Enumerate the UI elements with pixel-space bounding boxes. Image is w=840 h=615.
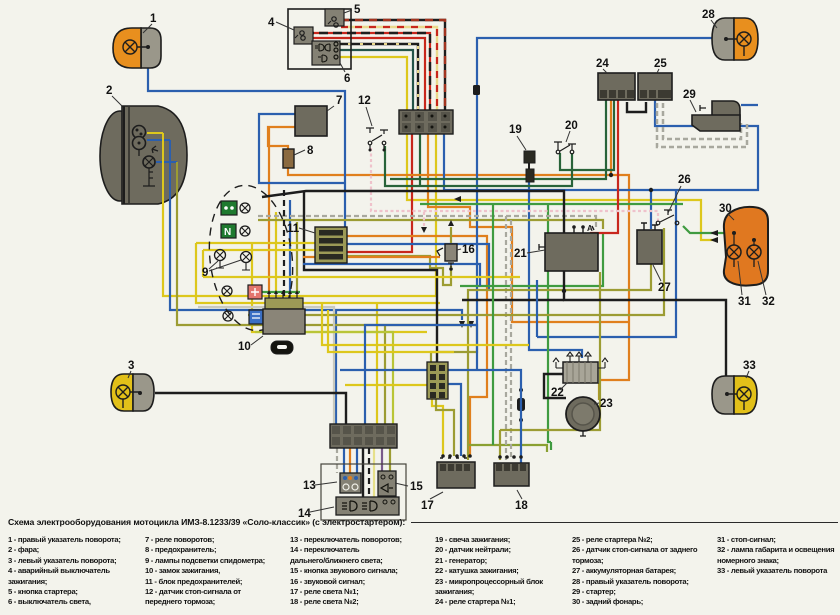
wire blue relay7 left <box>259 114 344 183</box>
wire top bundle 7 yellow <box>336 57 407 111</box>
indicator block turn green <box>221 201 250 215</box>
headlamp internal blue wire <box>147 140 177 162</box>
svg-text:33: 33 <box>743 360 756 372</box>
wire darkgreen relay24 to neutral switch <box>560 100 614 170</box>
wire top bundle 2 yellow base <box>341 27 437 111</box>
wire blue spark plug to coil <box>529 182 582 358</box>
legend column 4 <box>435 535 543 608</box>
wire black y300 left part <box>462 299 564 301</box>
wire green x548 down to y447 <box>548 205 551 450</box>
wire yellow branch to handlebar connector <box>376 303 378 424</box>
wire black handlebar to dimmer sw14 <box>362 448 364 500</box>
inline connector pin on blue x477 <box>473 85 480 95</box>
svg-text:4: 4 <box>268 17 275 29</box>
legend column 5 <box>572 535 697 608</box>
wire yellow harness y352 <box>328 310 454 352</box>
wire top bundle 2 red dashes <box>341 27 437 111</box>
wire olive headlamp y325 to relay17 <box>177 162 477 362</box>
fuse block 11 <box>315 227 347 263</box>
svg-text:20: 20 <box>565 120 578 132</box>
wire top bundle 1 red dashes <box>341 20 445 111</box>
wire yellow mesh y277 <box>203 276 520 278</box>
svg-text:10: 10 <box>238 341 251 353</box>
svg-text:19: 19 <box>509 124 522 136</box>
ignition lock 10 <box>263 290 305 354</box>
rear brake stop sensor 26 <box>656 210 679 225</box>
legend column 6 <box>717 535 834 577</box>
wire blue lock row y264 <box>303 264 480 286</box>
wire black jumper relay24-25 <box>627 102 646 112</box>
svg-text:N: N <box>224 227 231 238</box>
wire darkgreen relay24 y178 <box>390 100 606 179</box>
legend rule <box>411 522 838 523</box>
blue terminal arrows <box>459 321 474 328</box>
wire blue starter stub <box>741 104 758 106</box>
front brake stop sensor 12 <box>366 128 388 152</box>
ignition module 23 <box>566 397 600 436</box>
tail lamp 30 <box>710 207 768 286</box>
lamp 28 right rear turn indicator <box>712 18 758 60</box>
svg-text:32: 32 <box>762 296 775 308</box>
harness connector block top <box>399 110 453 134</box>
wire graybraid drop x506 <box>505 216 507 460</box>
svg-text:2: 2 <box>106 85 112 97</box>
dimmer switch 14 <box>336 497 399 515</box>
wire pink branch arrow <box>423 212 425 226</box>
spark plug 19 <box>524 151 535 182</box>
svg-text:17: 17 <box>421 500 434 512</box>
svg-text:21: 21 <box>514 248 527 260</box>
wire yellow headlamp y303 to relay17 <box>196 243 440 303</box>
wire olive fuseblock y256 <box>346 256 451 285</box>
light relay 17 <box>437 458 475 488</box>
wire orange below connector to sw13 <box>349 448 351 476</box>
headlamp bulb symbol high/low <box>133 126 146 139</box>
wire olive battery right y315 <box>248 228 664 315</box>
turn switch 13 <box>340 473 361 493</box>
wire top bundle 3 red base <box>305 33 430 111</box>
svg-text:31: 31 <box>738 296 751 308</box>
wire top bundle 5 yellow dashes <box>336 44 418 111</box>
legend column 1 <box>8 535 121 608</box>
starter relay 24 <box>598 73 635 100</box>
wire yellow headlamp to lock area <box>252 243 427 332</box>
switch box enclosure 13-15 <box>321 464 406 520</box>
wire graybraid starter loop outer <box>657 103 747 147</box>
wire olive relay18 x500 <box>499 430 501 460</box>
wire blue relay17 pin from block <box>448 384 461 456</box>
svg-text:9: 9 <box>202 267 208 279</box>
wire green switch26 to tail lamp <box>683 226 724 233</box>
indicator block oil pink <box>222 285 262 299</box>
wire green y447 over relays <box>467 445 547 452</box>
wire purple below connector to sw15 <box>381 448 383 477</box>
svg-text:3: 3 <box>128 360 134 372</box>
wire yellow harness y345 <box>322 303 529 345</box>
wire yellow cluster bus y250 <box>203 250 336 277</box>
svg-text:1: 1 <box>150 13 157 25</box>
wire yellow cluster bus y243 <box>196 242 330 244</box>
svg-text:28: 28 <box>702 9 715 21</box>
wire olive branch handlebar x385 <box>384 325 386 424</box>
starter relay 25 <box>638 73 672 100</box>
wire red relay24 to generator <box>590 100 618 233</box>
wire olive instrument y220 <box>258 220 603 229</box>
wire yellow harness x407 to tail lamp <box>407 133 714 240</box>
wire olive horn top stub <box>450 227 452 243</box>
starter button 5 <box>325 9 344 27</box>
instrument cluster 9 dashed outline <box>201 181 300 336</box>
svg-text:8: 8 <box>307 145 314 157</box>
lamp 33 left rear turn indicator <box>712 376 757 414</box>
headlamp internal yellow wire <box>147 132 163 134</box>
wire blue harness x444 battery feed <box>444 100 758 190</box>
wire olive coil to module <box>598 383 600 400</box>
junction dot x651 y190 <box>649 188 653 192</box>
ignition coil 22 <box>553 352 608 383</box>
svg-text:27: 27 <box>658 282 671 294</box>
generator 21 <box>539 224 598 271</box>
svg-text:30: 30 <box>719 203 732 215</box>
legend column 3 <box>290 535 402 608</box>
wire blue battery positive <box>650 190 652 229</box>
wire yellow harness red branch x412 <box>346 133 412 252</box>
wire green mesh x473 <box>492 204 494 445</box>
wire yellow ignition-lock x276 <box>275 212 277 293</box>
wire paleyellow below connector to sw14 <box>373 448 375 497</box>
wire blue drop x477 <box>477 38 714 370</box>
legend column 2 <box>145 535 265 608</box>
neutral sensor 20 <box>554 142 576 154</box>
lamp 3 left front turn indicator <box>111 374 154 411</box>
headlamp internal wire verticals <box>162 133 164 204</box>
wire yellowgreen handlebar y332 <box>255 332 393 424</box>
wire yellow harness y385 <box>345 384 440 386</box>
wire black x304 to small connector <box>304 191 437 362</box>
indicator block highbeam blue <box>223 310 263 324</box>
horn 16 <box>437 220 457 271</box>
emergency ignition switch 4 <box>294 27 313 44</box>
svg-text:6: 6 <box>344 73 350 85</box>
handlebar connector block bottom <box>330 424 397 448</box>
svg-text:23: 23 <box>600 398 613 410</box>
wire blue mesh x537 <box>536 280 538 337</box>
wire top bundle 3 black dashes <box>305 33 430 111</box>
wire top bundle 1 black base <box>341 20 445 111</box>
top box enclosure 4-5-6 <box>288 9 351 69</box>
wire blue turn signal lamp1 to lamp28 <box>148 64 345 227</box>
wire black main spine y191 y300 to lamp33 <box>262 191 726 376</box>
wire blue coil area y335 <box>537 190 676 337</box>
speedometer lamps 9 <box>215 250 252 271</box>
svg-text:13: 13 <box>303 480 316 492</box>
wire green oil lamp stub <box>262 291 300 293</box>
svg-text:18: 18 <box>515 500 528 512</box>
wire green y204 to rear brake switch <box>420 203 683 205</box>
wire darkgreen neutral switch y186 <box>385 146 572 186</box>
wire olive y430 generator to relay18 <box>500 272 600 430</box>
wire top bundle 4 red solid <box>305 38 425 111</box>
junction dot x564 y291 <box>562 289 566 293</box>
small connector block near coil <box>427 362 448 399</box>
wire blue below connector to sw13 right <box>356 448 358 476</box>
horn button 15 <box>378 471 396 496</box>
wire orange lock row y257 <box>303 256 440 258</box>
svg-text:25: 25 <box>654 58 667 70</box>
wire darkgreen harness x420 <box>419 133 421 186</box>
svg-text:7: 7 <box>336 95 342 107</box>
wire blue ignition lock x290 <box>289 200 291 293</box>
svg-text:24: 24 <box>596 58 609 70</box>
lamp 1 right front turn indicator <box>113 28 161 68</box>
svg-text:16: 16 <box>462 244 475 256</box>
wire orange ignition lock x269 <box>268 128 270 293</box>
svg-text:12: 12 <box>358 95 371 107</box>
wire blue harness y370 <box>340 370 521 463</box>
wire olive relay17 pin from block <box>436 398 454 456</box>
wire orange relay7 fuse8 long y178 to coil <box>268 127 629 380</box>
wire yellow headlamp-to-harness y296 <box>163 133 436 296</box>
fuse 8 <box>283 149 294 168</box>
wire top bundle 6 darkgreen <box>336 50 413 111</box>
relay18 pin dots <box>498 455 523 459</box>
svg-text:11: 11 <box>287 223 300 235</box>
svg-text:26: 26 <box>678 174 691 186</box>
indicator block neutral green <box>221 224 250 238</box>
starter 29 <box>692 101 740 131</box>
wire black coil to ignition module <box>544 374 566 398</box>
wire olive below connector to sw15 <box>389 448 391 477</box>
battery 27 <box>637 223 662 264</box>
wire olive ignition lock x297 <box>296 222 298 293</box>
wire graybraid instrument y216 <box>258 216 596 229</box>
wire blue fuseblock y244 to relay18 <box>346 244 489 290</box>
headlamp bulb symbol parking <box>143 156 155 168</box>
wire green y286 to generator <box>460 234 603 286</box>
wire black lamp3 to handlebar <box>155 393 346 424</box>
wire blue below connector to sw13 <box>343 448 345 476</box>
wire graybraid starter loop inner <box>663 103 741 139</box>
headlamp 2 housing <box>100 106 187 204</box>
wire blue headlamp y310 <box>170 140 462 320</box>
light relay 18 <box>494 463 529 486</box>
junction dot x611 y175 <box>609 173 613 177</box>
wire graybraid drop x511 <box>510 220 512 460</box>
relay17 pin dots <box>441 454 472 458</box>
wire orange fuseblock y236 <box>346 236 487 456</box>
pink branch arrowhead <box>421 227 427 233</box>
wire olive battery bottom y290 to relay17 <box>468 264 651 460</box>
wire yellow relay17 pin from block <box>432 398 443 456</box>
legend header <box>8 517 405 527</box>
inline connector pill on blue wire <box>517 398 525 411</box>
svg-text:29: 29 <box>683 89 696 101</box>
wire orange harness big route to coil <box>428 133 629 322</box>
wire graybraid below connector <box>336 448 338 473</box>
svg-text:A: A <box>587 224 593 233</box>
wire black dashed ignition lock <box>283 190 285 299</box>
arrowhead on yellow bus <box>454 196 461 202</box>
wire lightgray handlebar y318 <box>198 307 334 424</box>
light switch 6 <box>312 41 340 65</box>
wire pink front brake sensor <box>371 148 658 221</box>
wire orange relay24 drop <box>610 100 612 175</box>
svg-text:15: 15 <box>410 481 423 493</box>
wire blue branch handlebar x336 <box>335 310 337 424</box>
wire blue harness x365 <box>365 325 477 424</box>
svg-text:5: 5 <box>354 4 361 16</box>
wire top bundle 5 black base <box>336 44 418 111</box>
wire black dashed inside switch box <box>368 448 370 497</box>
turn relay 7 <box>295 106 327 136</box>
